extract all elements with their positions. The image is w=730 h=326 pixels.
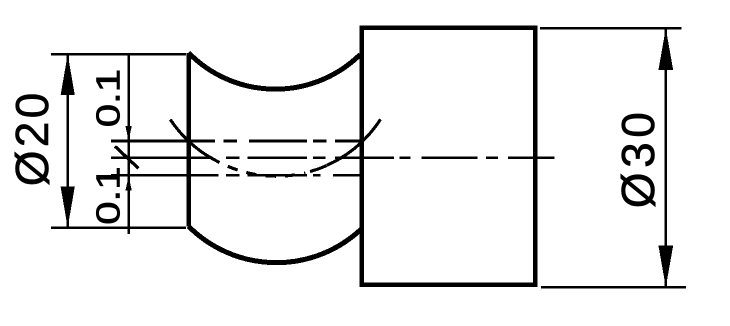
dimension line Ø20 (66, 54, 68, 227)
center line row 1 upper (111, 140, 361, 143)
arrowhead 0.1 upper down (125, 126, 131, 141)
arrowhead Ø20 up (61, 54, 75, 95)
svg-text:0.1: 0.1 (91, 69, 128, 127)
dimension line 0.1 vertical (127, 55, 129, 234)
right cylinder Ø30 rectangle outline (362, 28, 535, 285)
left cylinder bottom arc (189, 226, 361, 262)
svg-text:Ø30: Ø30 (612, 112, 664, 208)
tangency arc solid right (327, 119, 381, 165)
extension line Ø20 top (51, 53, 186, 55)
tangency arc solid left (170, 120, 219, 163)
arrowhead Ø30 down (658, 245, 673, 287)
extension line Ø30 bottom (541, 286, 686, 288)
hidden dashed arc middle (220, 163, 306, 177)
dimension line Ø30 (665, 28, 667, 287)
arrowhead 0.1 lower up (125, 176, 131, 191)
arrowhead Ø20 down (61, 187, 75, 228)
center line row 2 axis (111, 156, 554, 159)
left cylinder top concave arc (189, 53, 361, 89)
hidden arc long dash right (310, 166, 327, 172)
left cylinder left edge (186, 53, 191, 227)
arrowhead Ø30 up (658, 28, 673, 70)
extension line Ø30 top (540, 27, 682, 29)
oblique slash through dimension line (115, 146, 139, 168)
center line row 3 lower (111, 174, 361, 177)
extension line Ø20 bottom (51, 226, 186, 228)
svg-text:Ø20: Ø20 (6, 93, 58, 187)
